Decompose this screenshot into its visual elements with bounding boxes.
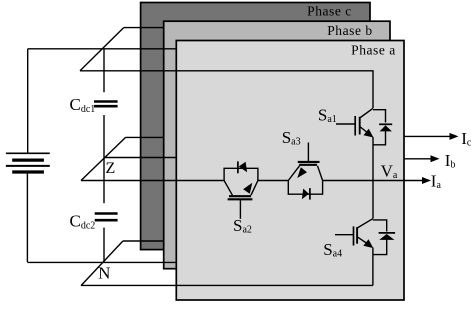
- svg-text:Z: Z: [106, 160, 116, 177]
- svg-text:N: N: [98, 263, 110, 282]
- svg-text:Phase a: Phase a: [351, 42, 396, 57]
- svg-text:Phase c: Phase c: [307, 3, 352, 18]
- svg-text:Phase b: Phase b: [327, 23, 372, 38]
